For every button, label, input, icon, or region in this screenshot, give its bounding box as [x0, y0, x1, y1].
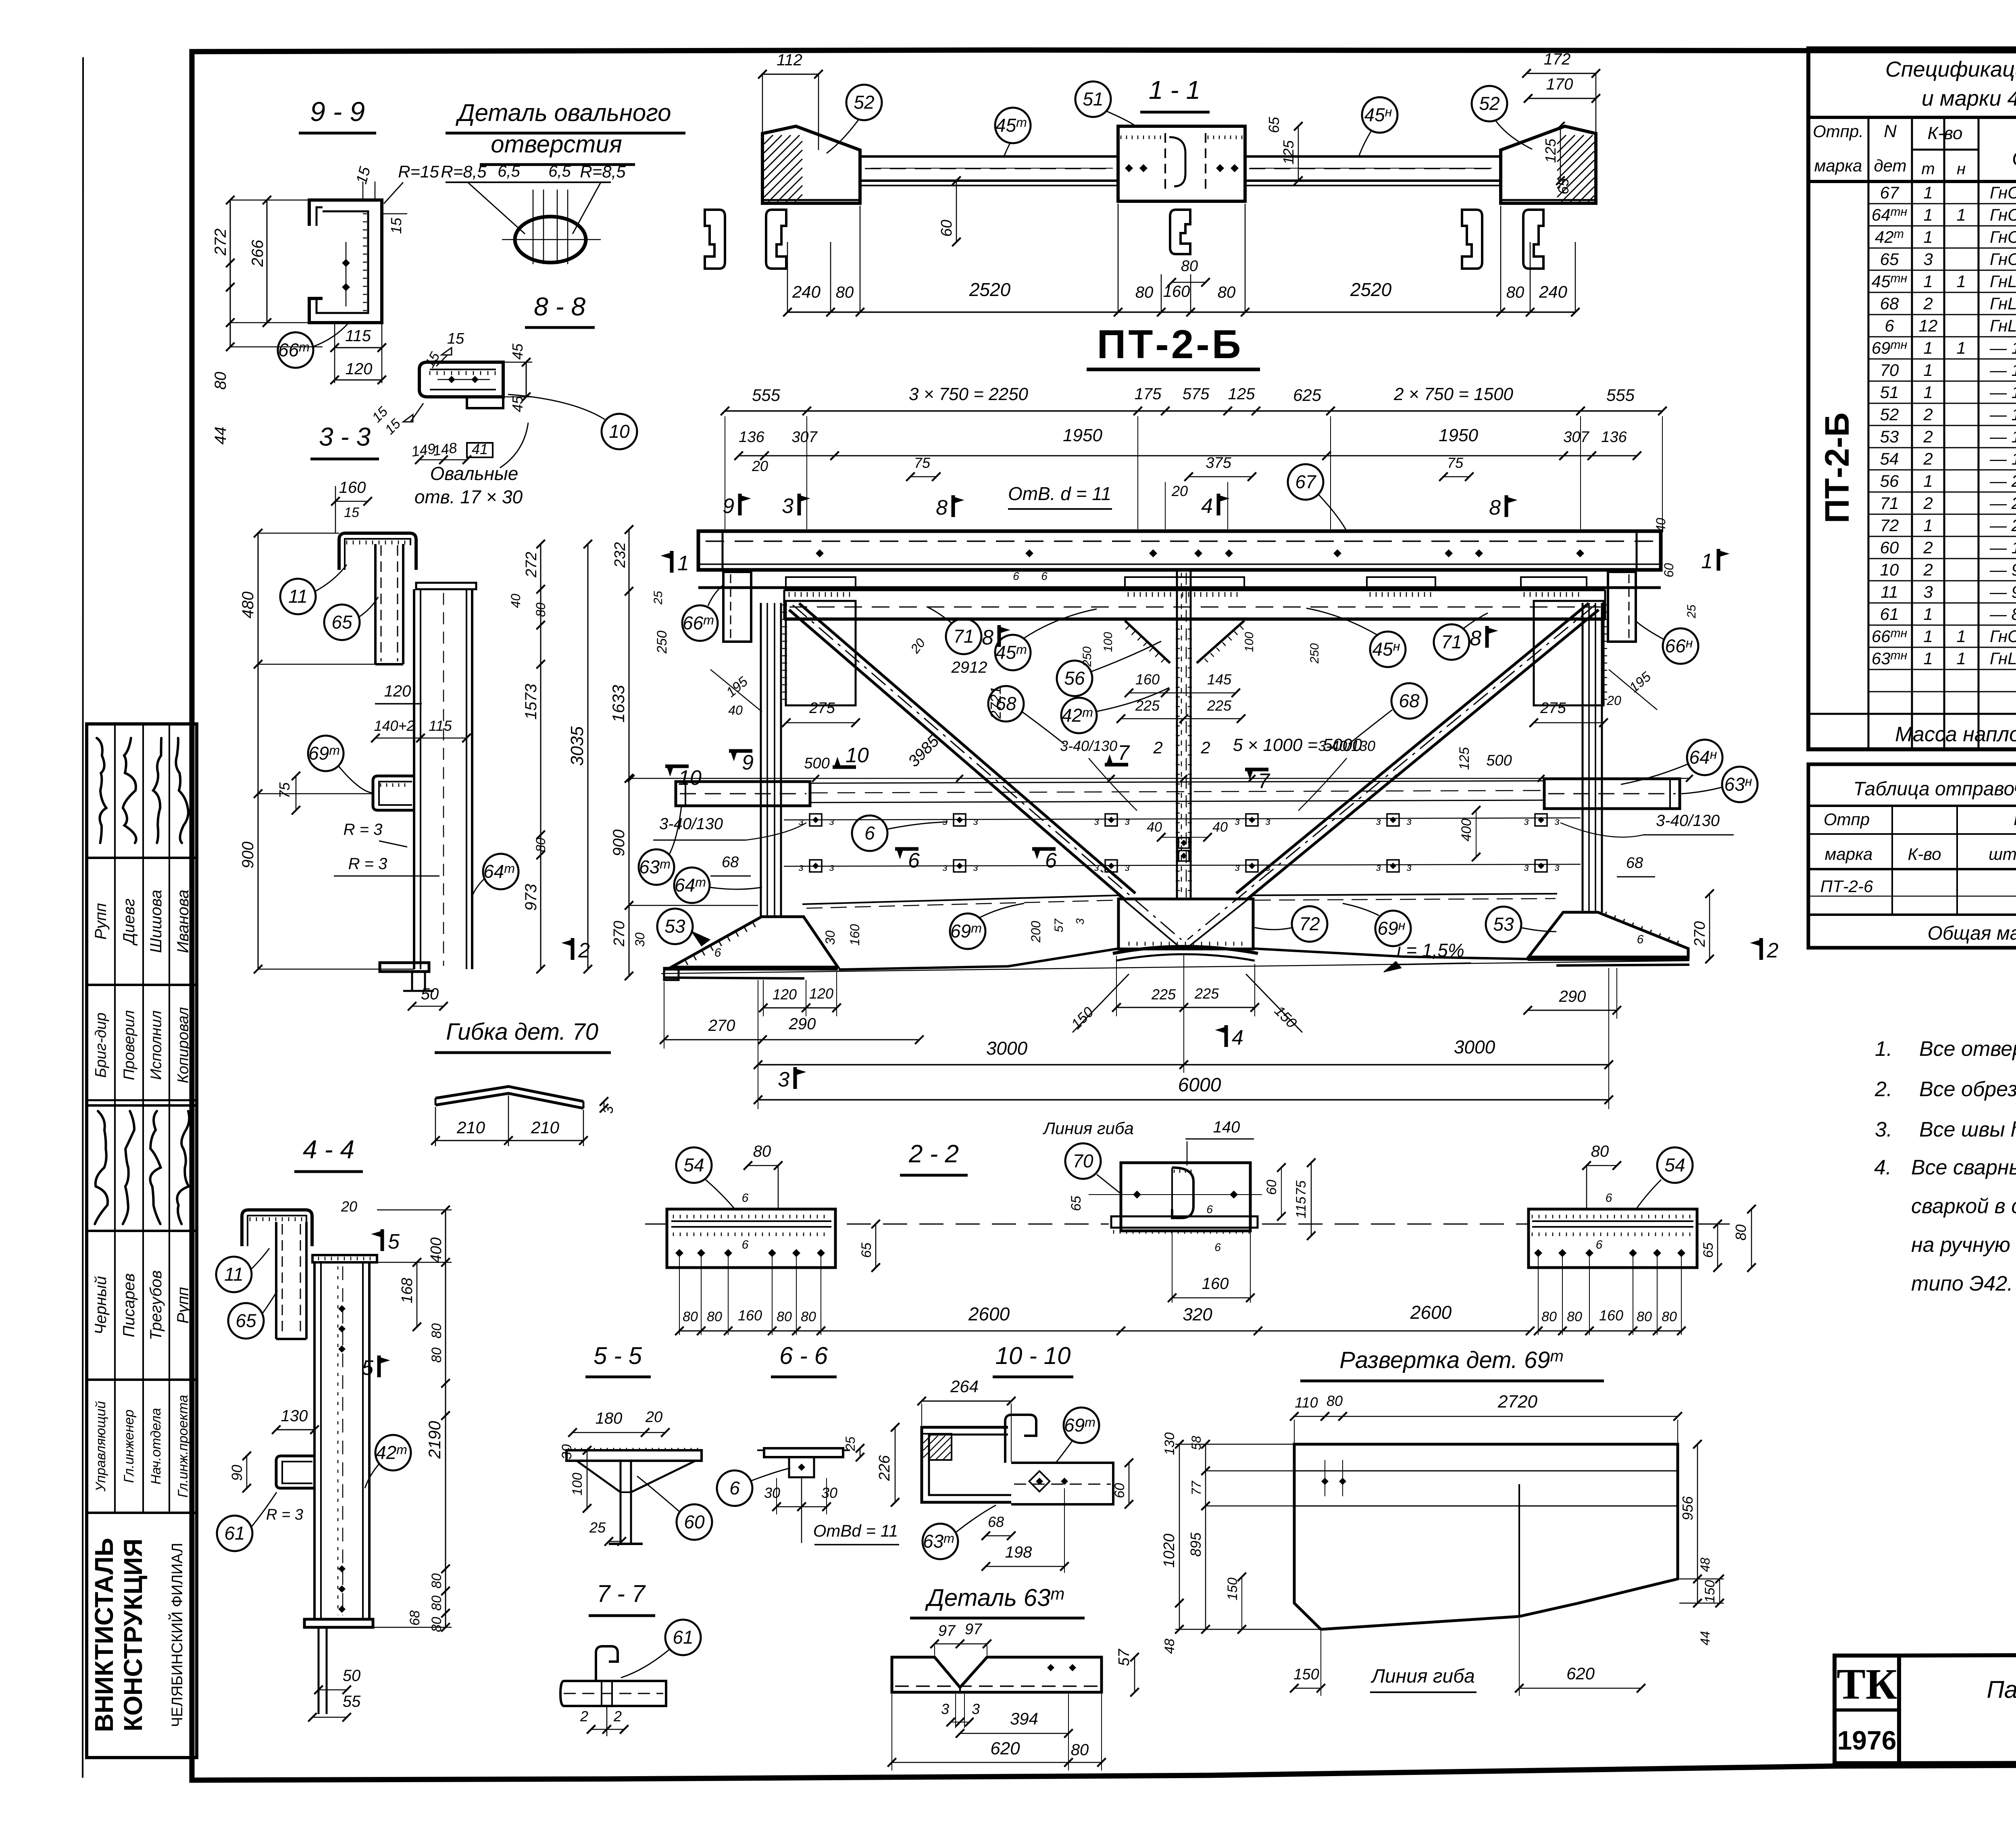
svg-text:2: 2: [580, 1708, 588, 1725]
svg-text:67: 67: [1295, 471, 1316, 492]
flag 4 bottom center: [1225, 1025, 1228, 1047]
svg-text:Масса напловленного металла: Масса напловленного металла 1%: [1895, 723, 2016, 746]
svg-text:2: 2: [613, 1708, 622, 1725]
svg-text:50: 50: [343, 1667, 361, 1685]
svg-text:2912: 2912: [951, 659, 987, 676]
svg-text:Масса в кг: Масса в кг: [2014, 808, 2016, 829]
svg-text:80: 80: [1733, 1224, 1749, 1241]
svg-text:1: 1: [1923, 516, 1933, 535]
dim 290 below right foot: [1528, 1010, 1617, 1011]
svg-text:110: 110: [1295, 1394, 1318, 1411]
main top dimension row 1 (555 / 3x750 / ... / 555): [725, 410, 1662, 412]
6-6 stub below: [789, 1457, 814, 1477]
svg-text:з: з: [1265, 861, 1270, 873]
10-10 channel det 69т: [922, 1427, 1011, 1502]
svg-text:6,5: 6,5: [548, 163, 571, 180]
svg-text:— 190×12: — 190×12: [1989, 361, 2016, 380]
signatures (handwritten) block 1: [97, 738, 106, 843]
svg-text:2: 2: [578, 939, 590, 962]
svg-text:130: 130: [1162, 1433, 1177, 1456]
svg-text:266: 266: [249, 240, 267, 267]
svg-text:500: 500: [1486, 752, 1512, 769]
svg-text:2: 2: [1923, 294, 1933, 313]
svg-text:1633: 1633: [609, 685, 628, 722]
3-3 vertical plate (det 65): [374, 544, 377, 664]
svg-text:7: 7: [1258, 769, 1270, 793]
3-3 main vertical member (det 64т): [416, 583, 476, 589]
3-3 section flag 2: [571, 938, 575, 960]
svg-text:1: 1: [1923, 227, 1933, 246]
svg-text:44: 44: [1698, 1631, 1712, 1645]
svg-text:з: з: [1524, 815, 1529, 827]
2-2 balloon 70: [1065, 1143, 1101, 1179]
svg-text:53: 53: [1493, 914, 1514, 935]
svg-text:н: н: [1957, 160, 1966, 178]
svg-text:8: 8: [982, 626, 993, 649]
svg-text:5 - 5: 5 - 5: [594, 1342, 642, 1369]
svg-text:1: 1: [1956, 205, 1966, 224]
dim 225 225 center: [1116, 1007, 1255, 1008]
4-4 top cap plate: [312, 1255, 377, 1262]
svg-text:575: 575: [1183, 385, 1210, 403]
svg-text:3: 3: [1074, 918, 1086, 925]
2-2 bottom dims right plate: [1538, 1330, 1681, 1332]
svg-text:з: з: [1094, 861, 1099, 873]
svg-text:2190: 2190: [425, 1421, 444, 1459]
svg-text:ЧЕЛЯБИНСКИЙ ФИЛИАЛ: ЧЕЛЯБИНСКИЙ ФИЛИАЛ: [168, 1543, 186, 1727]
svg-text:6: 6: [1596, 1238, 1603, 1251]
svg-text:10 - 10: 10 - 10: [996, 1342, 1071, 1369]
svg-text:— 100×8: — 100×8: [1989, 538, 2016, 557]
svg-text:54: 54: [1664, 1155, 1685, 1176]
3-3 dim 3035: [587, 544, 589, 969]
svg-text:140: 140: [1213, 1118, 1240, 1136]
bolts in 9-9: [342, 259, 350, 267]
svg-text:6: 6: [1637, 933, 1644, 946]
3-3 balloon 65: [324, 605, 360, 640]
svg-text:67: 67: [1880, 183, 1899, 202]
svg-text:250: 250: [654, 631, 670, 654]
5-5 web and gusset: [620, 1461, 622, 1544]
svg-text:7 - 7: 7 - 7: [597, 1580, 646, 1607]
svg-text:— 250×8: — 250×8: [1989, 494, 2016, 513]
center gusset det 72: [1118, 899, 1253, 949]
svg-text:30: 30: [764, 1485, 780, 1501]
svg-text:60: 60: [1662, 563, 1676, 578]
svg-text:Рупп: Рупп: [174, 1287, 192, 1324]
svg-text:N: N: [1884, 121, 1897, 141]
svg-text:12: 12: [1919, 316, 1938, 335]
svg-text:80: 80: [429, 1595, 444, 1611]
svg-text:з: з: [1554, 815, 1560, 827]
svg-text:R = 3: R = 3: [266, 1506, 303, 1523]
4-4 member bolts: [338, 1305, 346, 1312]
3-3 right dim chain 272/1573/973: [540, 544, 541, 969]
3-3 balloon 11: [280, 579, 316, 614]
svg-text:1: 1: [1923, 605, 1933, 624]
svg-text:марка: марка: [1814, 156, 1862, 175]
svg-text:65: 65: [331, 612, 352, 633]
svg-text:80: 80: [429, 1617, 444, 1632]
svg-text:сваркой в среде углекислого: сваркой в среде углекислого газа; в случ…: [1911, 1195, 2016, 1218]
section 9-9 channel profile: [309, 200, 382, 323]
svg-text:115: 115: [1293, 1197, 1309, 1218]
svg-text:1950: 1950: [1439, 425, 1478, 445]
svg-text:3-40/130: 3-40/130: [1318, 738, 1375, 754]
svg-text:51: 51: [1083, 89, 1103, 110]
svg-text:10: 10: [678, 766, 702, 790]
svg-text:10: 10: [846, 744, 869, 767]
svg-text:100: 100: [1243, 632, 1256, 652]
svg-text:80: 80: [212, 372, 229, 390]
svg-text:125: 125: [1542, 138, 1559, 163]
bolt gauge lines: [784, 818, 1581, 820]
svg-text:75: 75: [276, 782, 293, 799]
svg-text:11: 11: [288, 586, 308, 607]
top chord band det 45: [784, 590, 1605, 619]
balloon 67: [1288, 464, 1323, 500]
svg-text:625: 625: [1293, 386, 1322, 405]
svg-text:— 200×8: — 200×8: [1989, 516, 2016, 535]
svg-text:68: 68: [1399, 690, 1420, 711]
line under beam (second flange line): [698, 586, 1661, 589]
2-2 centerline between plates: [645, 1224, 667, 1225]
9-9 left dimension chain 272/266: [230, 200, 231, 347]
svg-text:ГнС 120×50×4: ГнС 120×50×4: [1990, 250, 2016, 269]
left chain labels 900 270 30: [629, 778, 630, 976]
svg-text:2 - 2: 2 - 2: [908, 1140, 959, 1168]
2-2 right plate bolts: [1534, 1249, 1542, 1257]
horizontal dim line 5x1000 with flags 10: [631, 778, 1689, 779]
dim 120 120 below left foot: [763, 1007, 837, 1009]
svg-text:2600: 2600: [1410, 1302, 1452, 1323]
svg-text:з: з: [798, 861, 804, 873]
svg-text:15: 15: [344, 505, 359, 520]
svg-text:50: 50: [421, 985, 439, 1003]
svg-text:120: 120: [346, 360, 373, 378]
balloon 72: [1292, 906, 1327, 942]
svg-text:ГнL 100×5: ГнL 100×5: [1990, 649, 2016, 668]
svg-text:— 130×12: — 130×12: [1989, 449, 2016, 468]
svg-text:з: з: [829, 861, 834, 873]
svg-text:25: 25: [1685, 605, 1698, 619]
svg-text:Иванова: Иванова: [174, 890, 192, 953]
1-1 left bar segment: [860, 155, 1118, 158]
svg-text:264: 264: [950, 1377, 979, 1396]
svg-text:3 - 3: 3 - 3: [319, 422, 371, 451]
svg-text:ТК: ТК: [1837, 1660, 1897, 1708]
oval hole ellipse: [515, 217, 586, 263]
svg-text:240: 240: [1539, 282, 1568, 301]
svg-text:80: 80: [801, 1309, 816, 1324]
right foot det 53: [1529, 912, 1688, 957]
svg-text:160: 160: [339, 479, 366, 496]
svg-text:8: 8: [936, 496, 948, 519]
svg-text:6 - 6: 6 - 6: [779, 1342, 828, 1369]
svg-text:дет: дет: [1874, 156, 1906, 175]
svg-text:3: 3: [941, 1701, 949, 1717]
svg-text:225: 225: [1194, 985, 1219, 1002]
upper balloons row: 66т 71 45т 56 42т 68 45н 71 66н 64н: [682, 605, 718, 641]
balloons lower area: [639, 849, 674, 885]
right diagonal det 68 (double line): [1246, 610, 1599, 900]
svg-text:з: з: [1094, 815, 1099, 827]
svg-text:Овальные: Овальные: [430, 463, 519, 484]
left gusset plate: [786, 601, 856, 705]
2-2 left plate det 54: [667, 1209, 835, 1268]
svg-text:68: 68: [988, 1514, 1004, 1530]
svg-text:Таблица отправочных марок: Таблица отправочных марок: [1853, 778, 2016, 800]
4-4 top channel det 11: [242, 1210, 312, 1246]
svg-text:52: 52: [1880, 405, 1899, 424]
specification table row lines: [1868, 203, 2016, 204]
svg-text:и марки 4-ⅣВСт3кп по ГОСТ165: и марки 4-ⅣВСт3кп по ГОСТ16523-70.*: [1922, 86, 2016, 111]
svg-text:2: 2: [1766, 939, 1779, 962]
svg-text:ПТ-2-Б: ПТ-2-Б: [1097, 322, 1243, 367]
svg-text:1: 1: [1923, 205, 1933, 224]
svg-text:3-40/130: 3-40/130: [1060, 738, 1117, 754]
svg-text:1976: 1976: [1837, 1725, 1897, 1755]
svg-text:Панель торца ПТ-2-6 шириной: Панель торца ПТ-2-6 шириной 6 м: [1987, 1676, 2016, 1703]
svg-text:150: 150: [1702, 1580, 1718, 1603]
1-1 center block det 51: [1118, 126, 1245, 201]
svg-text:3: 3: [972, 1701, 980, 1717]
extension lines from top dims down to beam: [725, 416, 725, 529]
svg-text:з: з: [1125, 861, 1130, 873]
svg-text:44: 44: [212, 427, 229, 445]
svg-text:307: 307: [791, 429, 818, 446]
svg-text:Все обрезы 50,: Все обрезы 50,: [1919, 1078, 2016, 1101]
development outline: [1294, 1444, 1678, 1629]
svg-text:65: 65: [235, 1310, 256, 1331]
svg-text:275: 275: [1540, 700, 1566, 717]
svg-text:Спецификация. Столь марки ВСт3: Спецификация. Столь марки ВСт3пс6 по ГОС…: [1885, 57, 2016, 81]
svg-text:1: 1: [1956, 649, 1966, 668]
svg-text:2600: 2600: [968, 1303, 1010, 1324]
svg-text:160: 160: [738, 1307, 762, 1324]
4-4 section flags 5: [381, 1229, 384, 1251]
svg-text:7: 7: [1118, 741, 1130, 765]
svg-text:232: 232: [612, 542, 629, 568]
svg-text:150: 150: [1293, 1666, 1319, 1683]
svg-text:Гл.инж.проекта: Гл.инж.проекта: [175, 1395, 191, 1498]
slab bottom edge det 69: [839, 949, 1118, 970]
flag 2 right: [1760, 938, 1763, 960]
svg-text:Исполнил: Исполнил: [148, 1010, 165, 1080]
svg-text:ГнС 160×80×4: ГнС 160×80×4: [1990, 227, 2016, 246]
7-7 clip channel on top: [596, 1646, 618, 1681]
7-7 balloon 61: [665, 1620, 701, 1655]
main section flags 9 3 8 4 8: [738, 494, 742, 515]
svg-text:272: 272: [212, 229, 229, 256]
center dish plate (curved): [1113, 947, 1258, 953]
2-2 middle bottom plate: [1111, 1216, 1258, 1228]
balloon 63н: [1722, 767, 1758, 802]
svg-text:типо Э42.: типо Э42.: [1911, 1272, 2013, 1295]
1-1 right end wedge det 52: [1501, 126, 1596, 203]
svg-text:— 1150×3: — 1150×3: [1989, 338, 2016, 357]
svg-text:97: 97: [965, 1621, 983, 1638]
dims 3000 3000: [758, 1064, 1609, 1066]
dims 270 290 below left foot: [664, 1039, 919, 1041]
svg-text:65: 65: [1880, 250, 1899, 269]
svg-text:60: 60: [1264, 1180, 1279, 1195]
svg-text:140+2: 140+2: [374, 717, 414, 734]
svg-text:45: 45: [509, 343, 526, 360]
svg-text:Развертка дет. 69т: Развертка дет. 69т: [1339, 1347, 1564, 1373]
svg-text:80: 80: [1327, 1393, 1343, 1409]
dim 6000: [758, 1099, 1609, 1101]
svg-text:1573: 1573: [522, 684, 540, 720]
svg-text:70: 70: [1880, 361, 1899, 380]
svg-text:555: 555: [752, 386, 781, 405]
svg-text:120: 120: [809, 985, 833, 1002]
svg-text:45: 45: [509, 396, 526, 412]
3-3 top channel (det 11): [339, 533, 416, 570]
svg-text:620: 620: [990, 1739, 1020, 1758]
balloon 6 and flags 6: [852, 815, 887, 851]
svg-text:56: 56: [1880, 471, 1899, 490]
svg-text:3-40/130: 3-40/130: [659, 815, 723, 833]
svg-text:1: 1: [1923, 627, 1933, 646]
svg-text:6: 6: [1045, 849, 1057, 872]
svg-text:2: 2: [1200, 738, 1210, 757]
svg-text:2721: 2721: [987, 686, 1004, 719]
svg-text:з: з: [1376, 861, 1381, 873]
svg-text:4.: 4.: [1874, 1156, 1891, 1179]
svg-text:15: 15: [388, 217, 404, 234]
svg-text:52: 52: [1479, 93, 1500, 114]
svg-text:— 190×12: — 190×12: [1989, 405, 2016, 424]
svg-text:25: 25: [652, 591, 665, 605]
svg-text:1: 1: [1923, 338, 1933, 357]
1-1 left end wedge det 52: [762, 126, 860, 203]
middle bar det 63н right segment: [1544, 779, 1680, 809]
svg-text:1: 1: [1923, 183, 1933, 202]
svg-text:210: 210: [531, 1118, 560, 1137]
svg-text:148: 148: [432, 439, 458, 459]
hanger tab det 66н below beam right end: [1608, 572, 1636, 642]
1-1 right bar segment: [1245, 155, 1501, 158]
svg-text:25: 25: [589, 1519, 606, 1536]
svg-text:53: 53: [664, 916, 685, 937]
svg-text:68: 68: [722, 854, 739, 871]
chord splice pads with hatch: [786, 577, 856, 588]
svg-text:ГнL 80×4: ГнL 80×4: [1990, 294, 2016, 313]
svg-text:Трегубов: Трегубов: [147, 1270, 165, 1341]
svg-text:Нач.отдела: Нач.отдела: [148, 1408, 164, 1485]
svg-text:1020: 1020: [1161, 1534, 1178, 1568]
svg-text:6: 6: [864, 823, 875, 844]
svg-text:72: 72: [1880, 516, 1899, 535]
svg-text:210: 210: [456, 1118, 485, 1137]
svg-text:Сечение: Сечение: [2012, 147, 2016, 170]
svg-text:80: 80: [429, 1323, 444, 1339]
svg-text:— 160×12: — 160×12: [1989, 427, 2016, 446]
svg-text:6000: 6000: [1178, 1074, 1221, 1096]
right edge vertical member det 64н: [1582, 603, 1584, 912]
svg-text:11: 11: [224, 1264, 244, 1285]
2-2 middle bolts: [1133, 1191, 1141, 1199]
svg-text:з: з: [1524, 861, 1529, 873]
svg-text:4: 4: [1232, 1026, 1243, 1049]
hanger tab det 66т below beam left end: [723, 572, 751, 642]
2-2 long dims 2600 320 2600: [821, 1330, 1530, 1332]
svg-text:40: 40: [508, 594, 523, 608]
svg-text:80: 80: [1541, 1309, 1557, 1324]
svg-text:56: 56: [1064, 668, 1085, 689]
4-4 bracket det 61: [276, 1456, 314, 1488]
1-1 bottom hooks (C-channels): [705, 210, 725, 269]
main left flag 1: [670, 551, 674, 573]
10-10 balloons 69т 63т: [1064, 1408, 1099, 1443]
svg-text:80: 80: [707, 1309, 722, 1324]
svg-text:68: 68: [1626, 855, 1643, 872]
svg-text:40: 40: [1212, 820, 1228, 835]
svg-text:8: 8: [1489, 496, 1501, 519]
svg-text:136: 136: [739, 429, 764, 446]
svg-text:6: 6: [1041, 570, 1048, 582]
svg-text:— 80×3: — 80×3: [1989, 605, 2016, 624]
svg-text:3000: 3000: [986, 1038, 1028, 1059]
svg-text:125: 125: [1457, 747, 1472, 770]
1-1 balloons 52 51 45т 45н 52: [846, 85, 882, 120]
svg-text:1: 1: [1923, 383, 1933, 402]
10-10 top clip channel: [1005, 1415, 1036, 1463]
svg-text:120: 120: [773, 986, 797, 1003]
development internal lines: [1294, 1470, 1678, 1472]
svg-text:900: 900: [239, 842, 257, 869]
6-6 top plate: [764, 1448, 843, 1457]
svg-text:160: 160: [1202, 1275, 1229, 1293]
svg-text:100: 100: [1102, 632, 1115, 652]
svg-text:75: 75: [1293, 1180, 1309, 1196]
detail 63т bar outline: [892, 1657, 1102, 1692]
4-4 base plate: [304, 1619, 373, 1627]
svg-text:3: 3: [1923, 582, 1933, 601]
svg-text:80: 80: [836, 284, 854, 301]
svg-text:1: 1: [1923, 649, 1933, 668]
svg-text:112: 112: [777, 51, 802, 69]
svg-text:400: 400: [428, 1237, 445, 1263]
svg-text:з: з: [1406, 861, 1412, 873]
svg-text:80: 80: [429, 1573, 444, 1589]
svg-text:6: 6: [729, 1478, 740, 1499]
svg-text:895: 895: [1187, 1532, 1204, 1557]
svg-text:60: 60: [684, 1512, 705, 1533]
svg-text:ПТ-2-Б: ПТ-2-Б: [1818, 413, 1856, 523]
svg-text:R=8,5: R=8,5: [441, 162, 487, 181]
svg-text:з: з: [1235, 815, 1240, 827]
svg-text:480: 480: [239, 592, 257, 619]
svg-text:ВНИКТИСТАЛЬ: ВНИКТИСТАЛЬ: [90, 1538, 119, 1732]
svg-text:620: 620: [1566, 1664, 1595, 1683]
svg-text:80: 80: [1218, 284, 1236, 301]
svg-text:5: 5: [362, 1356, 374, 1380]
svg-text:3035: 3035: [567, 726, 587, 766]
svg-text:54: 54: [1880, 449, 1899, 468]
svg-text:Деталь овального: Деталь овального: [455, 99, 671, 126]
svg-text:9: 9: [742, 751, 754, 774]
svg-text:394: 394: [1010, 1709, 1038, 1728]
svg-text:ГнL 100×5: ГнL 100×5: [1990, 272, 2016, 291]
svg-text:956: 956: [1679, 1496, 1696, 1520]
specification table header lines: [1808, 116, 2016, 119]
svg-text:61: 61: [224, 1523, 245, 1544]
svg-text:2520: 2520: [969, 279, 1011, 300]
svg-text:з: з: [973, 861, 978, 873]
2-2 left plate bolts: [675, 1249, 683, 1257]
